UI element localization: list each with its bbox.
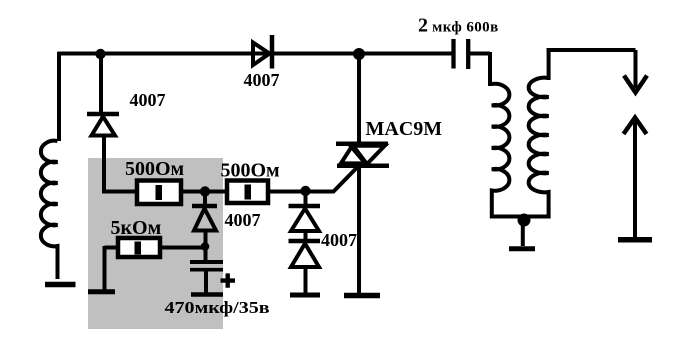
capacitor C2 470uF/35v — [190, 262, 223, 270]
terminal bar of L1 — [45, 282, 76, 288]
terminal bar below triac — [344, 293, 380, 299]
wire: top horizontal bus — [58, 52, 453, 56]
svg-text:500Ом: 500Ом — [125, 158, 184, 180]
diode D5 (4007 lower of stacked pair) — [289, 241, 321, 267]
resistor R1 500Om — [137, 181, 181, 205]
diode D4 (4007 upper of stacked pair) — [289, 206, 321, 231]
terminal bar below D5 — [290, 293, 320, 298]
wire: between D4 and D5 — [304, 230, 308, 241]
wire: D3 to capacitor C2 — [204, 230, 209, 293]
ground bar (R3 return) — [88, 289, 115, 294]
wire: R2 to triac gate (with diagonal) — [268, 167, 358, 192]
diode D3 (4007, vertical, cathode bar up) — [192, 206, 217, 231]
node: junction dot A (top-left) — [95, 49, 105, 59]
node: junction dot C — [300, 186, 310, 196]
diode D2 (4007, vertical, cathode bar up) — [87, 114, 119, 136]
shaded block background — [88, 158, 223, 329]
wire: D2 down to gate row — [104, 134, 138, 192]
svg-text:MAC9M: MAC9M — [366, 118, 443, 140]
transformer T1 secondary coil — [526, 78, 549, 217]
ground bar (transformer) — [509, 246, 535, 251]
wire: left vertical drop to coil — [57, 52, 61, 141]
wire: R3 right to junction D — [160, 246, 205, 250]
wire: junction A down to D2 — [99, 54, 103, 114]
diode D1 (4007, horizontal at top) — [253, 35, 272, 69]
svg-text:5кОм: 5кОм — [111, 217, 162, 239]
transformer T1 primary coil — [492, 84, 522, 217]
svg-text:4007: 4007 — [321, 230, 357, 250]
node: junction dot E (triac top) — [353, 48, 365, 60]
wire: C1 to transformer primary — [470, 52, 490, 86]
resistor R3 5kOm — [118, 238, 160, 257]
resistor R2 500Om — [227, 181, 268, 204]
svg-text:4007: 4007 — [244, 70, 280, 90]
svg-text:4007: 4007 — [225, 210, 261, 230]
svg-text:4007: 4007 — [130, 90, 166, 110]
svg-text:470мкф/35в: 470мкф/35в — [165, 298, 270, 317]
svg-text:500Ом: 500Ом — [221, 160, 280, 182]
terminal bar below spark gap — [618, 237, 652, 243]
wire: D5 down — [304, 266, 308, 293]
terminal bar of C2 — [191, 292, 223, 297]
inductor L1 (left coil) — [41, 141, 58, 279]
spark gap lower electrode (up arrow) — [624, 118, 647, 239]
node: junction dot D (5k feed) — [201, 242, 210, 251]
spark gap upper electrode (down arrow) — [624, 50, 647, 93]
wire: R3 left down — [105, 246, 119, 290]
wire: triac down — [357, 166, 361, 294]
wire: secondary up and right to spark gap — [547, 50, 636, 80]
wire: junction E down to triac — [357, 54, 361, 143]
node: junction dot B — [200, 186, 210, 196]
wire: transformer center tap down — [521, 221, 525, 246]
node: junction dot F (transformer bottom) — [518, 214, 531, 227]
wire: R1 to R2 — [181, 190, 227, 194]
capacitor C1 2uF 600v — [454, 39, 469, 69]
polarity plus of C2 — [221, 273, 236, 287]
triac U1 MAC9M — [336, 144, 389, 166]
wire: junction B down to D3 — [203, 191, 207, 206]
wire: junction C down to D4 — [304, 191, 308, 206]
